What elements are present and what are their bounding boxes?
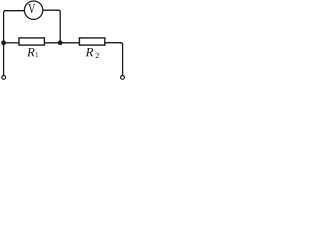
voltmeter letter V — [28, 4, 35, 13]
label R1 ("R" with subscript 1) — [27, 48, 35, 56]
wire: voltmeter right lead, down to node B between R1 and R2 — [43, 10, 60, 43]
wire: voltmeter left lead, down left side to terminal A — [4, 11, 25, 76]
resistor R1 — [19, 38, 44, 45]
label R2 ("R" with subscript 2) — [86, 48, 94, 56]
wire: R2 right lead, down right side to terminal C — [105, 43, 123, 76]
wire: node A column to R1 left lead — [4, 42, 19, 44]
node A (junction dot, left) — [1, 40, 6, 45]
wire: R1 right lead to R2 left lead through node B — [45, 42, 79, 44]
voltmeter V (circle body) — [24, 1, 42, 19]
terminal A (bottom-left, open circle) — [2, 76, 6, 80]
resistor R2 — [79, 38, 104, 45]
node B (junction dot, middle) — [58, 40, 63, 45]
terminal C (bottom-right, open circle) — [121, 76, 125, 80]
